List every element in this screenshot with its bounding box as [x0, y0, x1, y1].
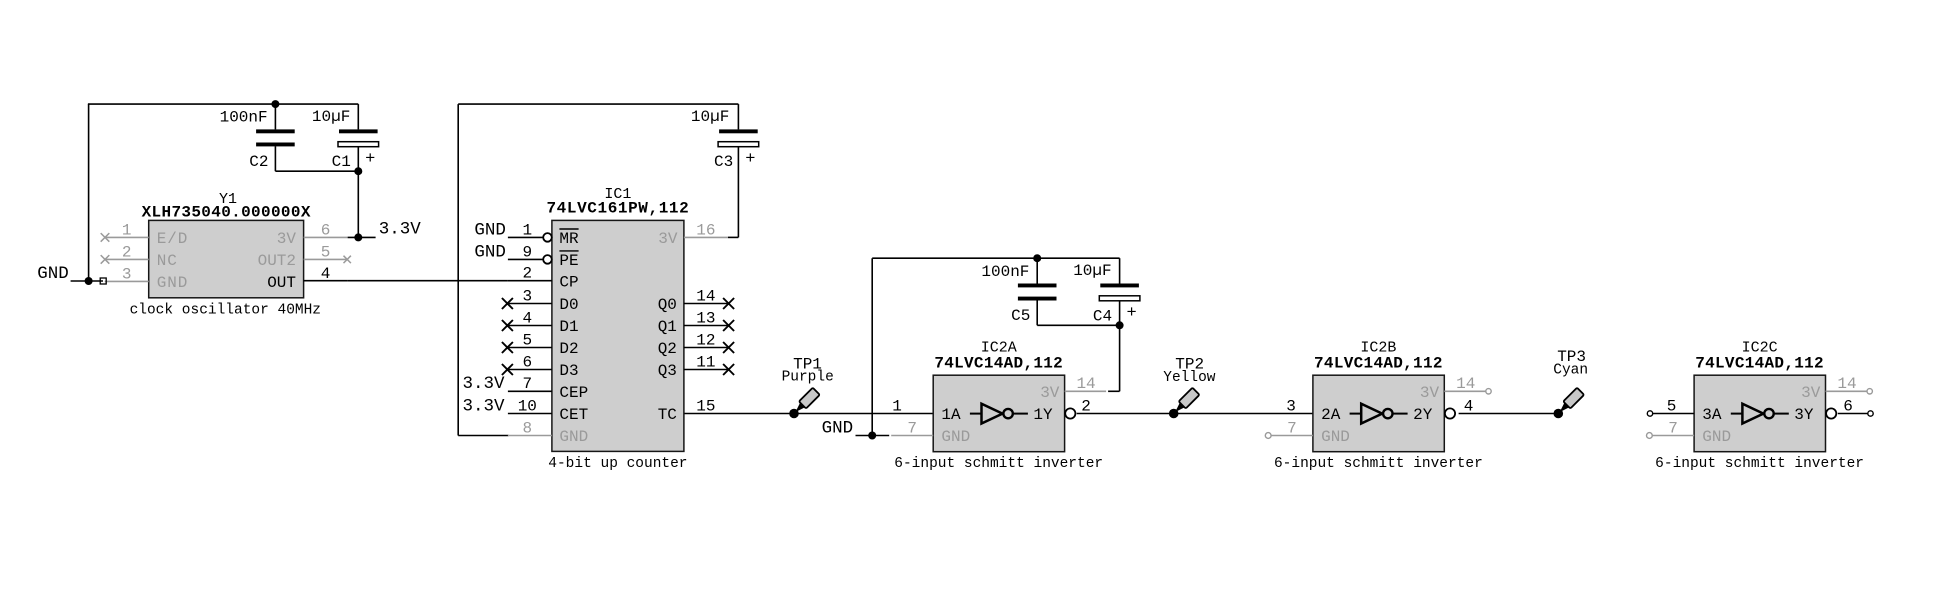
svg-text:GND: GND [157, 274, 189, 292]
svg-text:Q2: Q2 [658, 340, 677, 358]
svg-text:11: 11 [696, 353, 715, 371]
svg-text:3V: 3V [1420, 384, 1440, 402]
svg-text:100nF: 100nF [981, 263, 1029, 281]
svg-text:2: 2 [122, 243, 132, 261]
svg-text:+: + [745, 150, 755, 169]
svg-text:2A: 2A [1321, 406, 1341, 424]
svg-text:74LVC14AD,112: 74LVC14AD,112 [1314, 354, 1443, 372]
svg-text:9: 9 [522, 243, 532, 261]
svg-text:74LVC14AD,112: 74LVC14AD,112 [934, 354, 1063, 372]
svg-text:1: 1 [892, 397, 902, 415]
svg-text:12: 12 [696, 331, 715, 349]
svg-text:OUT: OUT [267, 274, 296, 292]
svg-text:4-bit up counter: 4-bit up counter [548, 456, 687, 472]
svg-text:2: 2 [522, 265, 532, 283]
svg-text:D3: D3 [559, 362, 578, 380]
svg-text:MR: MR [559, 230, 579, 248]
svg-text:Q0: Q0 [658, 296, 677, 314]
svg-text:3.3V: 3.3V [462, 396, 505, 416]
svg-text:6-input schmitt inverter: 6-input schmitt inverter [894, 456, 1103, 472]
svg-text:3.3V: 3.3V [462, 374, 505, 394]
svg-text:C2: C2 [249, 153, 268, 171]
svg-text:Cyan: Cyan [1553, 363, 1588, 379]
svg-text:2: 2 [1081, 397, 1091, 415]
svg-text:10µF: 10µF [691, 108, 729, 126]
svg-text:10µF: 10µF [1073, 262, 1111, 280]
svg-text:6-input schmitt inverter: 6-input schmitt inverter [1274, 456, 1483, 472]
svg-text:GND: GND [822, 418, 854, 438]
svg-text:XLH735040.000000X: XLH735040.000000X [142, 203, 311, 221]
svg-text:16: 16 [696, 221, 715, 239]
svg-text:1A: 1A [941, 406, 961, 424]
svg-text:E/D: E/D [157, 230, 189, 248]
svg-text:TC: TC [658, 406, 677, 424]
svg-text:Yellow: Yellow [1163, 370, 1216, 386]
svg-text:6: 6 [522, 353, 532, 371]
svg-text:3: 3 [522, 287, 532, 305]
svg-text:8: 8 [522, 419, 532, 437]
svg-text:C5: C5 [1011, 307, 1030, 325]
svg-text:3.3V: 3.3V [379, 220, 422, 240]
svg-text:C1: C1 [332, 153, 351, 171]
svg-text:4: 4 [321, 265, 331, 283]
svg-text:6: 6 [321, 221, 331, 239]
svg-text:14: 14 [1076, 375, 1095, 393]
svg-text:GND: GND [1702, 428, 1731, 446]
svg-text:5: 5 [522, 331, 532, 349]
svg-text:CEP: CEP [559, 384, 588, 402]
svg-text:6-input schmitt inverter: 6-input schmitt inverter [1655, 456, 1864, 472]
svg-text:D2: D2 [559, 340, 578, 358]
svg-text:1Y: 1Y [1033, 406, 1053, 424]
svg-text:14: 14 [1456, 375, 1475, 393]
svg-text:7: 7 [522, 375, 532, 393]
svg-text:100nF: 100nF [220, 109, 268, 127]
svg-text:GND: GND [1321, 428, 1350, 446]
svg-text:C4: C4 [1093, 307, 1112, 325]
svg-text:GND: GND [559, 428, 588, 446]
svg-text:3V: 3V [1040, 384, 1060, 402]
svg-text:14: 14 [696, 287, 715, 305]
svg-text:3Y: 3Y [1794, 406, 1814, 424]
svg-text:D1: D1 [559, 318, 578, 336]
svg-text:7: 7 [907, 419, 917, 437]
svg-text:GND: GND [474, 220, 506, 240]
svg-text:OUT2: OUT2 [258, 252, 296, 270]
svg-text:3V: 3V [658, 230, 678, 248]
svg-text:10µF: 10µF [312, 108, 350, 126]
svg-text:GND: GND [474, 242, 506, 262]
svg-text:3: 3 [1286, 397, 1296, 415]
svg-text:5: 5 [1667, 397, 1677, 415]
svg-text:3A: 3A [1702, 406, 1722, 424]
svg-text:4: 4 [522, 309, 532, 327]
svg-text:Q1: Q1 [658, 318, 677, 336]
svg-text:GND: GND [941, 428, 970, 446]
svg-text:74LVC14AD,112: 74LVC14AD,112 [1695, 354, 1824, 372]
svg-text:CP: CP [559, 273, 578, 291]
svg-text:3: 3 [122, 265, 132, 283]
svg-text:15: 15 [696, 397, 715, 415]
svg-text:14: 14 [1837, 375, 1856, 393]
svg-text:3V: 3V [277, 230, 297, 248]
svg-text:7: 7 [1287, 419, 1297, 437]
svg-text:74LVC161PW,112: 74LVC161PW,112 [546, 199, 689, 217]
svg-text:CET: CET [559, 406, 588, 424]
svg-text:1: 1 [122, 221, 132, 239]
svg-text:3V: 3V [1801, 384, 1821, 402]
svg-text:10: 10 [518, 397, 537, 415]
svg-text:NC: NC [157, 252, 178, 270]
svg-text:clock oscillator 40MHz: clock oscillator 40MHz [130, 302, 321, 318]
svg-text:PE: PE [559, 252, 578, 270]
svg-text:6: 6 [1843, 397, 1853, 415]
svg-text:Q3: Q3 [658, 362, 677, 380]
svg-text:7: 7 [1668, 419, 1678, 437]
svg-text:2Y: 2Y [1413, 406, 1433, 424]
svg-text:Purple: Purple [782, 370, 834, 386]
svg-text:+: + [365, 150, 375, 169]
svg-text:+: + [1126, 304, 1136, 323]
svg-text:GND: GND [37, 264, 69, 284]
svg-text:5: 5 [321, 243, 331, 261]
svg-text:D0: D0 [559, 296, 578, 314]
svg-text:13: 13 [696, 309, 715, 327]
svg-text:1: 1 [522, 221, 532, 239]
svg-text:4: 4 [1464, 397, 1474, 415]
svg-text:C3: C3 [714, 153, 733, 171]
